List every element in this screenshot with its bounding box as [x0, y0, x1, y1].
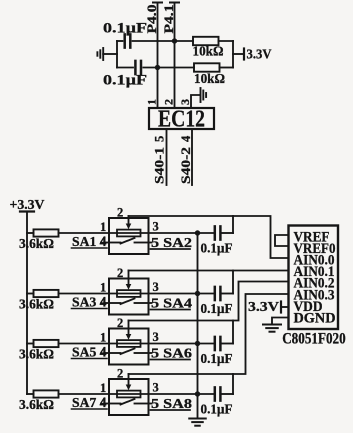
C2 value label 0.1uF — [103, 73, 147, 89]
wire +3.3V rail — [26, 212, 28, 395]
EC12 designator text — [158, 107, 205, 133]
svg-text:0.1µF: 0.1µF — [103, 73, 147, 89]
pin 3 wire row 1 to ground bus — [149, 230, 201, 235]
svg-text:0.1µF: 0.1µF — [103, 21, 147, 37]
node P4.1 vertical wire with terminal tick — [170, 3, 179, 109]
potentiometer element SA1 — [109, 230, 149, 237]
U1 pin label DGND — [294, 311, 336, 327]
node P4.0 vertical wire with terminal tick — [153, 3, 162, 109]
svg-text:1: 1 — [100, 220, 106, 234]
svg-text:DGND: DGND — [294, 311, 336, 327]
pin 1 label row 4 — [100, 381, 106, 395]
svg-text:3: 3 — [153, 381, 159, 395]
wire DGND to ground — [272, 318, 289, 325]
resistor value 3.6k row 3 — [19, 347, 54, 362]
designator SA7 pin4 label (underlined) — [72, 395, 108, 410]
svg-text:4: 4 — [179, 135, 193, 142]
svg-text:EC12: EC12 — [158, 107, 205, 133]
resistor R2 10k — [194, 63, 233, 71]
svg-text:0.1µF: 0.1µF — [201, 351, 233, 366]
pin 1 label row 2 — [100, 281, 106, 295]
svg-text:S40-2: S40-2 — [178, 147, 193, 184]
wire row 2 output to AIN0.1 — [129, 270, 289, 272]
C1 value label 0.1uF — [103, 21, 147, 37]
EC12 pin 4 wire (S40-2) — [191, 129, 193, 185]
U1 pin label AIN0.1 — [294, 264, 335, 280]
IC U1 C8051F020 box — [289, 226, 339, 330]
wiper arrow SA5 — [126, 329, 132, 340]
EC12 pin 2 label — [162, 99, 176, 105]
power terminal 3.3V (VDD) — [281, 302, 289, 313]
switch contact SA8 — [109, 399, 149, 405]
pin 4 stub row 4 — [100, 395, 109, 409]
wire rail to R5 row 3 — [27, 343, 34, 345]
svg-text:3: 3 — [178, 99, 192, 105]
power label 3.3V — [247, 47, 272, 62]
designator SA1 pin4 label (underlined) — [72, 234, 108, 249]
svg-text:1: 1 — [100, 281, 106, 295]
svg-text:1: 1 — [100, 381, 106, 395]
svg-text:5 SA4: 5 SA4 — [151, 296, 192, 311]
pin 5 stub and label 5 SA8 (underlined) — [149, 396, 193, 411]
ground bus vertical wire — [197, 233, 199, 419]
pin 5 stub and label 5 SA6 (underlined) — [149, 346, 193, 361]
pin 4 stub row 2 — [100, 295, 109, 309]
wire rail to R3 row 1 — [27, 232, 34, 234]
capacitor value 0.1uF row 4 — [201, 402, 233, 417]
switch contact SA6 — [109, 349, 149, 355]
U1 part number label C8051F020 — [282, 331, 346, 348]
svg-text:3.6kΩ: 3.6kΩ — [19, 236, 54, 251]
R1 value label 10k — [193, 45, 224, 60]
svg-text:3.6kΩ: 3.6kΩ — [19, 297, 54, 312]
power terminal +3.3V — [10, 197, 45, 212]
resistor R1 10k — [193, 37, 233, 45]
svg-text:3.3V: 3.3V — [248, 299, 279, 314]
wire C2 to R2, junction on P4.0 — [155, 65, 194, 70]
pin 3 wire row 4 to ground bus — [149, 391, 201, 396]
EC12 pin 5 wire (S40-1) — [166, 129, 168, 185]
ground (top-left) — [97, 48, 117, 60]
pin 2 riser row 2 — [128, 271, 130, 279]
pin 4 stub row 1 — [100, 234, 109, 248]
rotary encoder EC12 box — [149, 108, 214, 129]
pin 2 riser row 1 — [128, 216, 130, 218]
svg-text:2: 2 — [162, 99, 176, 105]
U1 pin label VREF0 — [294, 241, 336, 257]
wiper arrow SA7 — [126, 379, 132, 390]
resistor 3.6k row 2 — [34, 290, 110, 297]
svg-text:3: 3 — [153, 280, 159, 294]
capacitor C2 0.1uF (bottom) — [117, 61, 158, 74]
capacitor 0.1uF row 1 — [198, 216, 234, 240]
resistor 3.6k row 1 — [34, 229, 110, 236]
svg-text:5: 5 — [152, 136, 166, 142]
svg-text:0.1µF: 0.1µF — [201, 402, 233, 417]
svg-text:2: 2 — [117, 266, 123, 280]
net label S40-1 5 — [151, 136, 166, 184]
svg-text:0.1µF: 0.1µF — [201, 301, 233, 316]
U1 pin label VREF — [294, 230, 330, 246]
svg-text:4: 4 — [100, 345, 107, 359]
wire VREF to VREF0 bracket — [275, 235, 289, 246]
wire rail to R6 row 4 — [27, 393, 34, 395]
ground (EC12 pin 3) — [201, 88, 207, 102]
pin 2 riser row 4 — [128, 374, 130, 379]
R2 value label 10k — [194, 72, 225, 87]
switch contact SA4 — [109, 299, 149, 305]
wire row 1 output to AIN0.0 — [129, 216, 289, 258]
capacitor C1 0.1uF (top) — [117, 34, 158, 47]
ground (DGND) — [263, 325, 281, 332]
pin 3 label row 4 — [153, 381, 159, 395]
pin 3 label row 2 — [153, 280, 159, 294]
svg-text:P4.1: P4.1 — [161, 5, 176, 34]
wire row 4 output to AIN0.3 — [129, 294, 289, 374]
resistor value 3.6k row 1 — [19, 236, 54, 251]
svg-text:4: 4 — [100, 234, 107, 248]
ground (bottom bus) — [189, 419, 206, 426]
resistor 3.6k row 4 — [34, 390, 110, 397]
resistor value 3.6k row 4 — [19, 397, 54, 412]
svg-text:0.1µF: 0.1µF — [201, 241, 233, 256]
wiper arrow SA3 — [126, 279, 132, 290]
net label S40-2 4 — [178, 135, 193, 184]
wire rail to R4 row 2 — [27, 293, 34, 295]
svg-text:S40-1: S40-1 — [151, 147, 166, 184]
switch/pot box SA1 — [109, 218, 149, 254]
switch/pot box SA5 — [109, 329, 149, 365]
designator SA5 pin4 label (underlined) — [72, 345, 108, 360]
svg-text:1: 1 — [100, 331, 106, 345]
power terminal 3.3V (top) — [233, 49, 244, 60]
pin 2 label row 1 — [117, 206, 123, 220]
switch/pot box SA7 — [109, 379, 149, 415]
pin 3 wire row 2 to ground bus — [149, 291, 201, 296]
svg-text:2: 2 — [117, 206, 123, 220]
U1 pin label AIN0.2 — [294, 276, 335, 292]
pin 3 label row 3 — [153, 330, 159, 344]
EC12 pin 3 wire — [191, 95, 200, 108]
wire row 3 output to AIN0.2 — [129, 282, 289, 321]
U1 pin label VDD — [294, 299, 323, 315]
svg-text:4: 4 — [100, 295, 107, 309]
svg-text:5 SA8: 5 SA8 — [151, 396, 192, 411]
pin 5 stub and label 5 SA2 (underlined) — [149, 235, 193, 250]
switch contact SA2 — [109, 238, 149, 244]
potentiometer element SA3 — [109, 290, 149, 297]
svg-text:4: 4 — [100, 395, 107, 409]
capacitor value 0.1uF row 2 — [201, 301, 233, 316]
pin 3 wire row 3 to ground bus — [149, 341, 201, 346]
svg-text:3.6kΩ: 3.6kΩ — [19, 347, 54, 362]
EC12 pin 1 label — [145, 99, 159, 105]
svg-text:C8051F020: C8051F020 — [282, 331, 346, 348]
svg-text:10kΩ: 10kΩ — [193, 45, 224, 60]
wiper arrow SA1 — [126, 218, 132, 229]
svg-text:1: 1 — [145, 99, 159, 105]
capacitor value 0.1uF row 3 — [201, 351, 233, 366]
capacitor value 0.1uF row 1 — [201, 241, 233, 256]
wire left junction vertical — [116, 41, 118, 68]
svg-text:2: 2 — [117, 316, 123, 330]
svg-text:3: 3 — [153, 220, 159, 234]
power label 3.3V (VDD) — [248, 299, 279, 314]
svg-text:+3.3V: +3.3V — [10, 197, 45, 212]
potentiometer element SA5 — [109, 340, 149, 347]
node P4.0 label — [144, 5, 159, 34]
switch/pot box SA3 — [109, 279, 149, 315]
pin 1 label row 3 — [100, 331, 106, 345]
wire pull-up common vertical — [232, 41, 234, 68]
capacitor 0.1uF row 2 — [198, 271, 234, 301]
node P4.1 label — [161, 5, 176, 34]
capacitor 0.1uF row 4 — [198, 374, 234, 401]
pin 5 stub and label 5 SA4 (underlined) — [149, 296, 193, 311]
svg-text:3.3V: 3.3V — [247, 47, 272, 62]
designator SA3 pin4 label (underlined) — [72, 295, 108, 310]
capacitor 0.1uF row 3 — [198, 321, 234, 351]
U1 pin label AIN0.0 — [294, 253, 335, 269]
svg-text:10kΩ: 10kΩ — [194, 72, 225, 87]
svg-text:3.6kΩ: 3.6kΩ — [19, 397, 54, 412]
svg-text:3: 3 — [153, 330, 159, 344]
svg-text:5 SA6: 5 SA6 — [151, 346, 192, 361]
pin 3 label row 1 — [153, 220, 159, 234]
resistor 3.6k row 3 — [34, 340, 110, 347]
svg-text:2: 2 — [117, 367, 123, 381]
U1 pin label AIN0.3 — [294, 288, 335, 304]
pin 2 riser row 3 — [128, 321, 130, 329]
EC12 pin 3 label — [178, 99, 192, 105]
pin 1 label row 1 — [100, 220, 106, 234]
svg-text:5 SA2: 5 SA2 — [151, 235, 192, 250]
wire C1 to R1, junction on P4.1 — [158, 38, 194, 43]
pin 2 label row 3 — [117, 316, 123, 330]
potentiometer element SA7 — [109, 391, 149, 398]
resistor value 3.6k row 2 — [19, 297, 54, 312]
pin 4 stub row 3 — [100, 345, 109, 359]
pin 2 label row 2 — [117, 266, 123, 280]
pin 2 label row 4 — [117, 367, 123, 381]
